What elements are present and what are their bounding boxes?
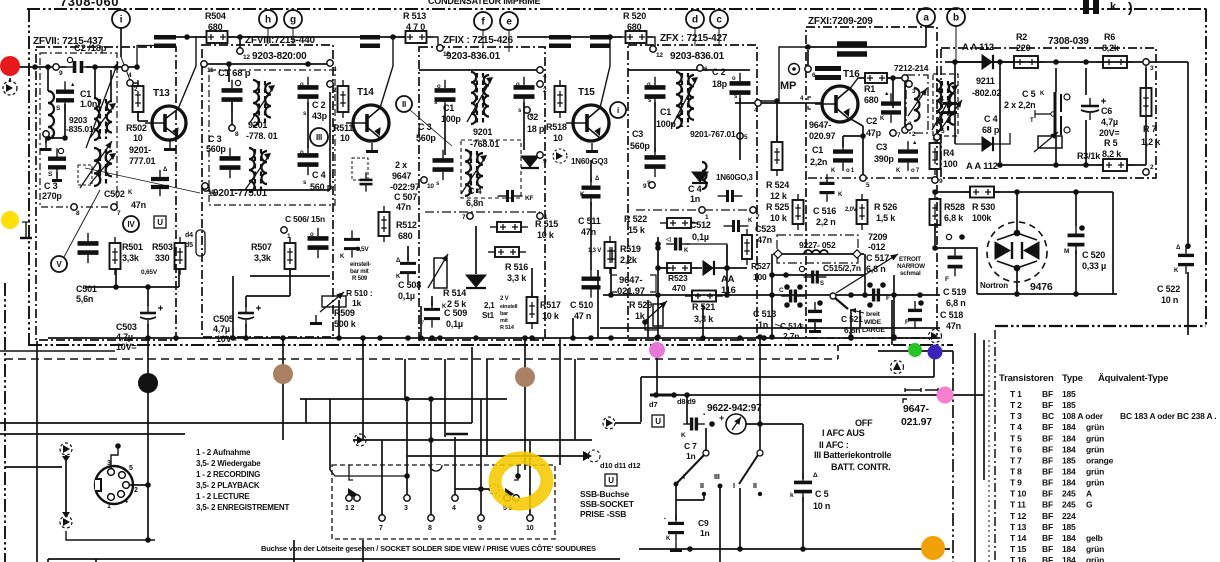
resistor R524v (772, 136, 783, 176)
svg-text:BF: BF (1042, 555, 1053, 562)
svg-text:5: 5 (941, 128, 945, 135)
node brown dot 1 (273, 364, 293, 384)
node terminal 12 ZFIX (437, 45, 443, 51)
svg-text:270p: 270p (42, 191, 62, 201)
svg-text:BF: BF (1042, 389, 1053, 399)
junction 039 c (1083, 59, 1089, 65)
wire socket lower rail (66, 531, 155, 540)
resistor R512v (379, 206, 390, 242)
wire II pointer (410, 110, 452, 146)
svg-text:100: 100 (943, 159, 958, 169)
svg-text:grün: grün (1086, 444, 1104, 454)
svg-text:9476: 9476 (1030, 281, 1053, 293)
svg-text:9: 9 (643, 183, 647, 190)
junction filter vert dots (655, 245, 661, 251)
junction top bus 1 (390, 34, 396, 40)
svg-text:S: S (820, 281, 824, 287)
svg-text:C 522: C 522 (1157, 284, 1180, 294)
svg-text:9211: 9211 (976, 76, 995, 86)
svg-text:R 525: R 525 (766, 202, 789, 212)
table left chain border (994, 330, 996, 562)
svg-text:BF: BF (1042, 500, 1053, 510)
node socket notch (430, 465, 442, 471)
svg-text:47n: 47n (946, 321, 961, 331)
svg-text:1 - 2 Aufnahme: 1 - 2 Aufnahme (196, 448, 251, 457)
wire R507 rail (250, 275, 330, 277)
wire dashed link d-row (85, 168, 200, 193)
svg-text:9201-767.01: 9201-767.01 (690, 129, 736, 139)
node pin 7 (379, 515, 385, 521)
svg-text:6: 6 (812, 72, 816, 79)
svg-text:C 511: C 511 (578, 216, 601, 226)
svg-text:▲: ▲ (70, 82, 75, 88)
node pin 3 (404, 495, 410, 501)
svg-text:R 513: R 513 (403, 11, 426, 21)
svg-text:10 n: 10 n (1161, 295, 1178, 305)
capacitor C515b filter (864, 289, 888, 302)
module 9227-052 box (777, 235, 858, 263)
svg-text:St1: St1 (482, 311, 495, 320)
svg-text:6: 6 (704, 66, 708, 73)
svg-text:7: 7 (462, 214, 466, 221)
border outer-left lower chain (4, 283, 6, 562)
svg-text:18p: 18p (712, 79, 728, 89)
svg-text:3,3 k: 3,3 k (507, 273, 527, 283)
svg-text:AA: AA (721, 274, 735, 285)
svg-text:4 7 0: 4 7 0 (406, 22, 425, 32)
svg-text:4: 4 (452, 505, 456, 512)
wire V pointer (64, 190, 100, 257)
svg-text:2,2 n: 2,2 n (816, 217, 836, 227)
svg-text:9647-: 9647- (809, 120, 831, 130)
svg-text:II: II (753, 481, 757, 490)
svg-text:10 k: 10 k (542, 311, 560, 321)
svg-text:C 4: C 4 (312, 170, 326, 180)
svg-text:II: II (402, 100, 406, 109)
node terminal 8 ZFVII (71, 204, 77, 210)
svg-text:3,3k: 3,3k (254, 253, 272, 263)
svg-text:1 - 2 LECTURE: 1 - 2 LECTURE (196, 492, 250, 501)
svg-text:T15: T15 (578, 87, 595, 98)
svg-text:ZFIX : 7215-426: ZFIX : 7215-426 (443, 35, 513, 46)
resistor R520 (619, 31, 654, 43)
svg-text:T 8: T 8 (1010, 466, 1022, 476)
svg-text:2 V: 2 V (500, 296, 509, 302)
svg-text:3,5- 2 PLAYBACK: 3,5- 2 PLAYBACK (196, 481, 260, 490)
svg-text:G: G (1086, 500, 1093, 510)
node terminal 4 ZFIX (537, 67, 543, 73)
fet C5 pair (1035, 92, 1070, 137)
node pin 1 2 (349, 465, 353, 480)
svg-text:2: 2 (912, 131, 916, 138)
wire ZFXI top entry2 (680, 50, 790, 56)
wire T16 collector (849, 78, 865, 90)
module ZFX inner bottom (636, 209, 752, 211)
wire C1 bottom (64, 104, 66, 138)
wire h y455 (407, 455, 590, 457)
svg-text:OFF: OFF (855, 418, 873, 428)
svg-text:ETROIT: ETROIT (899, 256, 921, 263)
svg-text:R 7: R 7 (1143, 124, 1157, 134)
svg-text:3,3 k: 3,3 k (694, 314, 714, 324)
svg-text:0,1µ: 0,1µ (398, 291, 415, 301)
svg-text:10 n: 10 n (813, 501, 830, 511)
svg-text:C 520: C 520 (1082, 250, 1105, 260)
svg-text:C3: C3 (876, 142, 887, 152)
svg-text:C 508: C 508 (398, 280, 421, 290)
resistor R525v (793, 194, 804, 230)
svg-text:3: 3 (912, 88, 916, 95)
transistor T15 (566, 105, 609, 141)
wire vert x657 (656, 352, 658, 395)
wire vert x283 (282, 338, 284, 440)
resistor R513 (399, 31, 434, 43)
node circled I (610, 102, 626, 118)
diode 1N60 ZFIX (521, 156, 539, 168)
svg-text:C 7: C 7 (684, 441, 697, 451)
svg-text:R 514: R 514 (500, 325, 515, 331)
svg-text:8,2k: 8,2k (1102, 43, 1120, 53)
node pin 10 (527, 515, 533, 521)
capacitor C4 ZFVIII (298, 145, 319, 175)
svg-text:0,65V: 0,65V (141, 269, 158, 276)
svg-text:3,5- 2 ENREGISTREMENT: 3,5- 2 ENREGISTREMENT (196, 503, 289, 512)
svg-text:▲: ▲ (884, 91, 889, 97)
capacitor C507 (360, 172, 373, 191)
svg-text:184: 184 (1062, 544, 1076, 554)
svg-text:9: 9 (939, 178, 943, 185)
wire ZFIX inner verts (444, 105, 446, 155)
svg-text:1,5V: 1,5V (356, 246, 369, 253)
svg-text:2,7n: 2,7n (783, 331, 799, 341)
capacitor C511 (582, 177, 601, 206)
svg-text:C 3: C 3 (44, 181, 58, 191)
label dashed small box (352, 158, 368, 180)
node terminal 4 ZFVII (122, 65, 128, 71)
svg-text:3,3k: 3,3k (122, 253, 140, 263)
svg-text:BF: BF (1042, 444, 1053, 454)
svg-text:390p: 390p (874, 154, 894, 164)
svg-text:9201: 9201 (473, 127, 492, 137)
svg-text:3: 3 (1150, 65, 1154, 72)
svg-text:184: 184 (1062, 422, 1076, 432)
svg-text:4,7µ: 4,7µ (213, 324, 230, 334)
svg-text:einstell-: einstell- (350, 262, 371, 268)
resistor R522 (660, 218, 698, 228)
node pin 9 (478, 515, 484, 521)
svg-text:b: b (953, 13, 959, 24)
svg-text:7: 7 (756, 214, 760, 221)
wire III down (719, 488, 721, 562)
node circled II (396, 96, 412, 112)
node terminal 3 039 (1143, 59, 1149, 65)
node U box (154, 216, 166, 228)
svg-text:C1 68 p: C1 68 p (218, 68, 251, 79)
junction 039 d (1083, 162, 1089, 168)
svg-text:I: I (683, 472, 685, 481)
ground term3 (41, 141, 52, 150)
wire right double vert (961, 420, 963, 549)
svg-text:47n: 47n (396, 202, 411, 212)
wire top bus segment A (154, 36, 207, 38)
svg-text:mit: mit (500, 318, 508, 324)
svg-text:4: 4 (754, 107, 758, 114)
capacitor C522 (1178, 246, 1194, 274)
svg-text:9201: 9201 (248, 120, 267, 130)
svg-text:47n: 47n (131, 200, 146, 210)
wire Nortron risers (1016, 192, 1018, 233)
wire vert x573 (572, 318, 574, 338)
svg-text:BC 183 A oder BC 238 A .: BC 183 A oder BC 238 A . (1120, 411, 1216, 421)
svg-text:k: k (790, 492, 794, 499)
svg-text:T 15: T 15 (1010, 544, 1027, 554)
svg-text:C6: C6 (1101, 106, 1112, 116)
svg-text:5: 5 (866, 182, 870, 189)
svg-text:T14: T14 (357, 87, 374, 98)
capacitor C1 ZFVII (56, 81, 74, 110)
capacitor C3 ZFVII (48, 148, 66, 177)
svg-text:M: M (1064, 248, 1069, 255)
svg-text:MP: MP (780, 80, 796, 92)
svg-text:R 515: R 515 (535, 219, 558, 229)
svg-text:R501: R501 (122, 242, 143, 252)
svg-text:T: T (1030, 118, 1034, 124)
wire T16 base lead (806, 102, 822, 104)
capacitor C518b filter (908, 301, 922, 329)
svg-text:7212-214: 7212-214 (894, 63, 929, 73)
svg-text:9647-: 9647- (619, 275, 642, 286)
wire T13 base (137, 111, 139, 121)
capacitor C2 ZFX (730, 73, 751, 103)
svg-text:T 6: T 6 (1010, 444, 1022, 454)
wire bottom h-line 2 (0, 433, 185, 435)
svg-text:T 3: T 3 (1010, 411, 1022, 421)
svg-text:5: 5 (744, 134, 748, 141)
resistor R526v (857, 194, 868, 230)
node dashed term upper (60, 443, 72, 455)
wire stub under g (292, 28, 294, 44)
node magenta dot (649, 342, 665, 358)
wire filter verts (726, 245, 728, 295)
node terminal 9 ZFX (649, 182, 655, 188)
svg-text:BF: BF (1042, 511, 1053, 521)
svg-text:C1: C1 (812, 145, 823, 155)
svg-text:6,8 n: 6,8 n (946, 298, 966, 308)
module ZFIX inner bottom (425, 211, 540, 213)
capacitor C6 electrolytic (1081, 98, 1106, 120)
svg-text:▲: ▲ (912, 140, 917, 146)
svg-text:4: 4 (128, 72, 132, 79)
node circled letter e (500, 12, 518, 30)
svg-text:9647-: 9647- (903, 403, 930, 415)
wire left vertical x37 (36, 341, 38, 562)
svg-text:9: 9 (478, 525, 482, 532)
svg-text:R517: R517 (540, 300, 561, 310)
svg-text:7308-039: 7308-039 (1048, 36, 1089, 47)
svg-text:Δ: Δ (813, 472, 818, 479)
svg-text:R523: R523 (668, 273, 688, 283)
node circled letter i (112, 10, 130, 28)
node terminal 12 ZFVIII (237, 48, 243, 54)
node circled letter c (710, 10, 728, 28)
svg-text:I AFC AUS: I AFC AUS (822, 428, 865, 438)
wire vert x148 to socket (147, 338, 149, 485)
wire T13 emitter down (159, 156, 161, 172)
svg-text:SSB-SOCKET: SSB-SOCKET (580, 499, 635, 509)
wire coil top (47, 67, 49, 91)
svg-text:i: i (617, 106, 619, 115)
svg-text:9203-836.01: 9203-836.01 (446, 51, 501, 62)
svg-text:10: 10 (208, 189, 215, 196)
svg-text:o: o (647, 82, 651, 88)
svg-text:1 2: 1 2 (345, 505, 354, 512)
switch AFC 2 (757, 450, 763, 456)
transformer ZFVIII lower (245, 148, 271, 192)
capacitor printed bars 6 (815, 69, 841, 78)
wire C505 leads (289, 269, 291, 296)
svg-text:8: 8 (428, 525, 432, 532)
svg-text:10 k: 10 k (537, 230, 555, 240)
svg-text:R504: R504 (205, 11, 226, 21)
svg-text:C1: C1 (80, 89, 91, 99)
svg-text:1,5 k: 1,5 k (876, 213, 896, 223)
node terminal 3 (43, 131, 49, 137)
wire bottom rail y549 (639, 548, 950, 550)
svg-text:-778. 01: -778. 01 (246, 131, 278, 141)
svg-text:47p: 47p (866, 128, 882, 138)
wire ZFVIII top rail (207, 63, 330, 65)
svg-text:9622-942:97: 9622-942:97 (707, 403, 762, 414)
ground C3 (52, 172, 62, 181)
svg-text:47 n: 47 n (574, 311, 591, 321)
svg-text:R503: R503 (152, 242, 173, 252)
svg-text:R 522: R 522 (624, 214, 647, 224)
ground T13 (164, 141, 176, 150)
svg-text:T 1: T 1 (1010, 389, 1022, 399)
transformer ZFVII lower (90, 148, 116, 186)
resistor R1 ZFXI (858, 73, 894, 83)
svg-text:185: 185 (1062, 400, 1076, 410)
junction y295 dots (608, 292, 614, 298)
border frame top chain line (27, 8, 1207, 10)
junction 039 a (997, 59, 1003, 65)
svg-text:C 2: C 2 (712, 67, 726, 77)
svg-text:R528: R528 (944, 202, 965, 212)
wire green stub (878, 350, 953, 352)
node terminal 6 ZFIX (524, 107, 530, 113)
node circled III (310, 128, 328, 146)
svg-text:C 4: C 4 (984, 114, 998, 124)
node U box d7 (652, 415, 664, 427)
wire dashed term vert (65, 455, 67, 516)
wire bottom box edge (48, 558, 620, 560)
capacitor C2 ZFVIII (298, 77, 319, 107)
svg-text:C 3: C 3 (418, 122, 432, 132)
svg-text:NARROW: NARROW (897, 263, 925, 270)
svg-text:d7: d7 (649, 400, 657, 409)
node circled letter d (686, 10, 704, 28)
wire R528 bottom path (934, 223, 936, 248)
svg-text:einstell: einstell (500, 304, 518, 310)
svg-text:T 7: T 7 (1010, 455, 1022, 465)
svg-text:T 11: T 11 (1010, 500, 1026, 510)
svg-text:i: i (120, 15, 123, 26)
svg-text:9203-820:00: 9203-820:00 (252, 51, 307, 62)
svg-text:V: V (56, 260, 62, 269)
svg-text:116: 116 (721, 285, 736, 296)
svg-text:R 520: R 520 (623, 11, 646, 21)
svg-text:C512: C512 (690, 220, 711, 230)
svg-text:WIDE: WIDE (864, 319, 882, 326)
capacitor C503 electrolytic (140, 305, 163, 327)
svg-text:47n: 47n (757, 235, 772, 245)
wire vert x648b (647, 300, 649, 338)
svg-text:12: 12 (443, 51, 450, 58)
wire vert x703 (702, 305, 704, 338)
wire top bus segment D (648, 37, 655, 48)
trimmer ZFVII (86, 62, 118, 148)
node circled V (51, 256, 67, 272)
svg-text:1k: 1k (635, 311, 646, 321)
svg-text:C 506/ 15n: C 506/ 15n (285, 214, 325, 224)
node terminal 2 039 (1143, 169, 1149, 175)
svg-text:BF: BF (1042, 478, 1053, 488)
svg-text:184: 184 (1062, 433, 1076, 443)
svg-text:1n: 1n (686, 451, 696, 461)
node terminal 1b ZFIX (537, 213, 543, 219)
svg-text:R6: R6 (1104, 32, 1115, 42)
svg-text:3: 3 (404, 505, 408, 512)
ground C9 (670, 542, 682, 551)
svg-text:330: 330 (155, 253, 170, 263)
svg-text:8,2 k: 8,2 k (1102, 149, 1122, 159)
svg-text:0,1µ: 0,1µ (446, 319, 463, 329)
transformer ZFIX upper (467, 72, 493, 124)
wire vert x598 (597, 270, 599, 338)
svg-text:o 7: o 7 (911, 168, 920, 174)
svg-text:T 12: T 12 (1010, 511, 1027, 521)
svg-text:12 k: 12 k (770, 191, 788, 201)
svg-text:43p: 43p (312, 111, 328, 121)
wire y377 link (641, 376, 934, 378)
svg-text:18 p: 18 p (527, 124, 545, 134)
wire 9227 line (773, 253, 864, 255)
capacitor C2 47p (881, 93, 901, 123)
svg-text:C 5: C 5 (815, 489, 829, 499)
module ZFX box (628, 45, 757, 340)
capacitor C2 ZFVII (66, 61, 90, 73)
svg-text:g: g (290, 15, 296, 26)
node yellow marker ring (492, 455, 550, 508)
svg-text:680: 680 (864, 95, 879, 105)
wire 039 main rail (955, 61, 1150, 63)
svg-text:1n: 1n (690, 194, 700, 204)
wire bottom h-line 3 (5, 466, 62, 468)
resistor R519 (605, 236, 616, 274)
ground R509 (310, 315, 322, 324)
svg-text:U: U (157, 218, 163, 227)
capacitor C502 (151, 170, 169, 196)
svg-text:1,2 k: 1,2 k (1141, 137, 1161, 147)
capacitor C1 ZFVIII (222, 80, 243, 110)
svg-text:220: 220 (1016, 43, 1031, 53)
svg-text:bar: bar (500, 311, 509, 317)
wire sub bus 2 (600, 327, 940, 329)
svg-text:2,2n: 2,2n (810, 157, 827, 167)
wire vert x330 (329, 399, 331, 470)
capacitor C513 filter (781, 290, 805, 303)
svg-text:BF: BF (1042, 433, 1053, 443)
